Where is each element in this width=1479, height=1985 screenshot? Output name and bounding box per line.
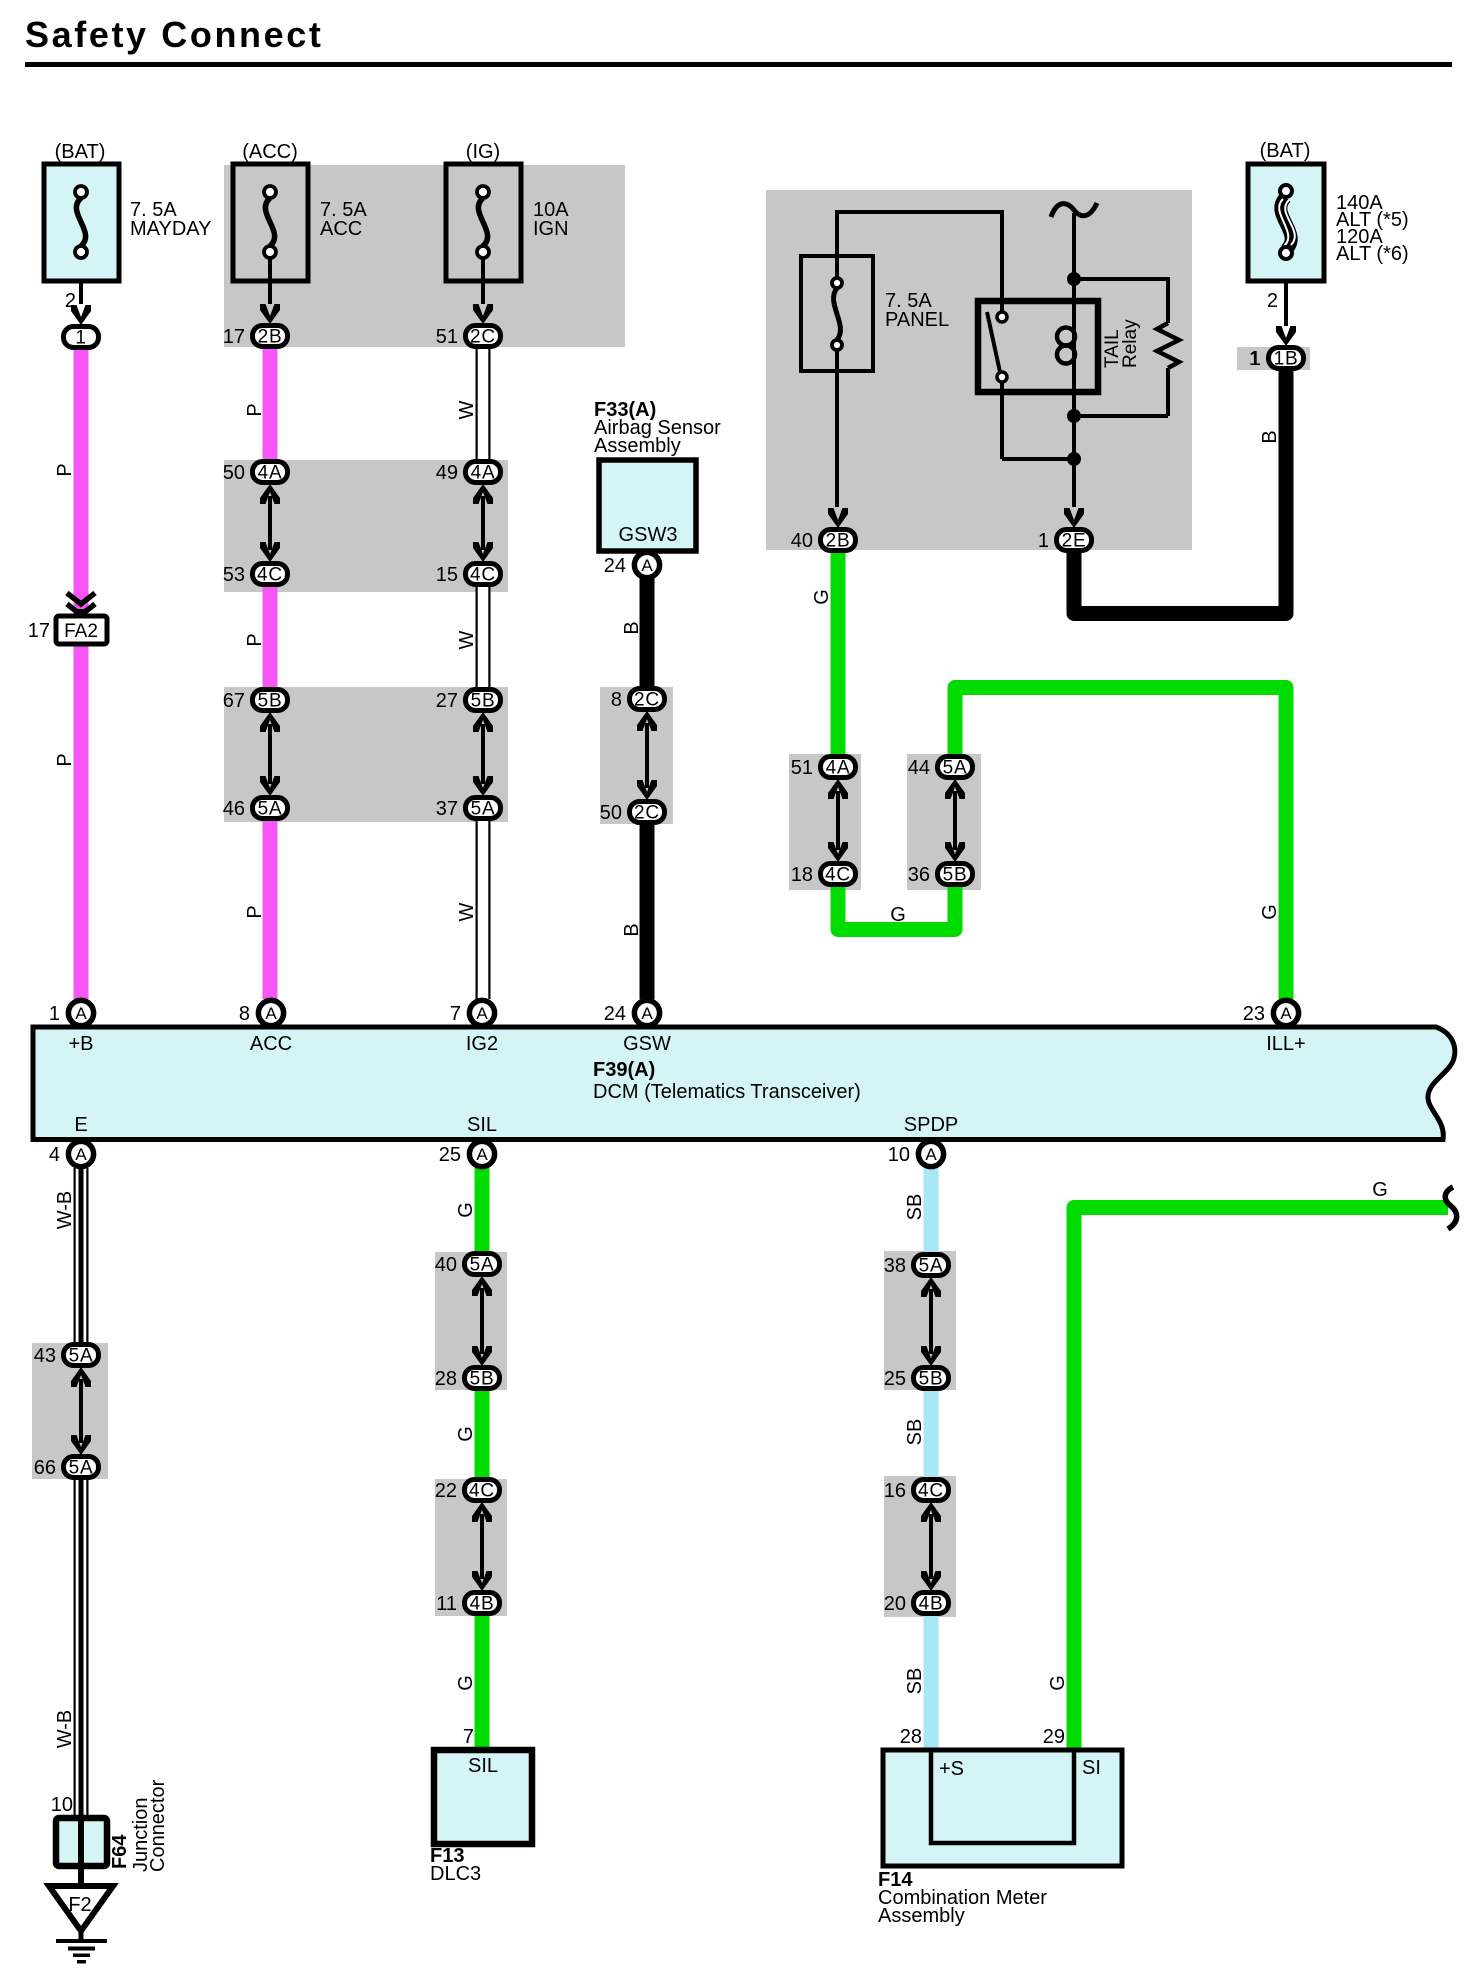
svg-text:ILL+: ILL+ — [1266, 1033, 1305, 1055]
svg-text:27: 27 — [436, 690, 458, 712]
svg-text:5A: 5A — [69, 1346, 94, 1367]
svg-text:DCM (Telematics Transceiver): DCM (Telematics Transceiver) — [593, 1081, 861, 1103]
svg-text:40: 40 — [435, 1254, 457, 1276]
svg-text:1: 1 — [75, 328, 86, 349]
svg-text:GSW3: GSW3 — [619, 524, 678, 546]
svg-text:A: A — [75, 1145, 87, 1164]
svg-text:50: 50 — [600, 802, 622, 824]
svg-text:4: 4 — [49, 1144, 60, 1166]
svg-text:SB: SB — [904, 1668, 926, 1695]
svg-text:11: 11 — [436, 1593, 457, 1615]
svg-text:MAYDAY: MAYDAY — [130, 218, 212, 240]
svg-text:25: 25 — [439, 1144, 461, 1166]
svg-text:2C: 2C — [634, 803, 660, 824]
svg-text:28: 28 — [435, 1368, 457, 1390]
svg-text:P: P — [244, 633, 266, 646]
svg-text:50: 50 — [223, 462, 245, 484]
svg-text:G: G — [1047, 1675, 1069, 1691]
svg-text:IGN: IGN — [533, 218, 569, 240]
svg-text:4A: 4A — [826, 758, 851, 779]
svg-text:F39(A): F39(A) — [593, 1059, 655, 1081]
svg-text:SI: SI — [1082, 1757, 1101, 1779]
svg-text:G: G — [455, 1675, 477, 1691]
svg-text:+B: +B — [68, 1033, 93, 1055]
svg-text:29: 29 — [1043, 1726, 1065, 1748]
svg-text:W-B: W-B — [54, 1191, 76, 1230]
svg-text:A: A — [476, 1004, 488, 1023]
svg-text:38: 38 — [884, 1255, 906, 1277]
svg-text:P: P — [244, 905, 266, 918]
svg-text:A: A — [1280, 1004, 1292, 1023]
svg-text:5B: 5B — [943, 865, 968, 886]
svg-text:2C: 2C — [634, 690, 660, 711]
svg-text:23: 23 — [1243, 1003, 1265, 1025]
svg-text:G: G — [1259, 904, 1281, 920]
svg-text:1: 1 — [49, 1003, 60, 1025]
svg-text:IG2: IG2 — [466, 1033, 498, 1055]
svg-text:4B: 4B — [470, 1594, 495, 1615]
svg-text:5A: 5A — [470, 1255, 495, 1276]
svg-text:A: A — [641, 556, 653, 575]
svg-text:4A: 4A — [471, 463, 496, 484]
svg-text:2E: 2E — [1062, 531, 1087, 552]
svg-text:Relay: Relay — [1120, 319, 1141, 368]
svg-text:5A: 5A — [471, 799, 496, 820]
svg-text:1B: 1B — [1274, 349, 1299, 370]
svg-text:ALT (*6): ALT (*6) — [1336, 243, 1409, 265]
svg-text:GSW: GSW — [623, 1033, 671, 1055]
svg-text:SB: SB — [904, 1194, 926, 1221]
svg-text:17: 17 — [223, 326, 245, 348]
svg-text:37: 37 — [436, 798, 458, 820]
svg-text:W: W — [456, 902, 478, 921]
svg-text:4A: 4A — [258, 463, 283, 484]
svg-text:DLC3: DLC3 — [430, 1863, 481, 1885]
svg-text:5A: 5A — [919, 1256, 944, 1277]
svg-text:Safety Connect: Safety Connect — [25, 14, 323, 55]
svg-text:22: 22 — [435, 1480, 457, 1502]
svg-text:SIL: SIL — [468, 1755, 498, 1777]
svg-text:SPDP: SPDP — [904, 1114, 958, 1136]
svg-text:F64: F64 — [109, 1834, 131, 1869]
svg-text:17: 17 — [28, 620, 50, 642]
svg-text:Connector: Connector — [147, 1779, 169, 1872]
svg-text:5B: 5B — [258, 691, 283, 712]
svg-text:4C: 4C — [825, 865, 851, 886]
svg-text:2: 2 — [65, 290, 76, 312]
svg-text:2C: 2C — [470, 327, 496, 348]
svg-text:28: 28 — [900, 1726, 922, 1748]
svg-text:24: 24 — [604, 1003, 626, 1025]
svg-text:40: 40 — [791, 530, 813, 552]
svg-text:A: A — [265, 1004, 277, 1023]
svg-text:5A: 5A — [258, 799, 283, 820]
svg-text:16: 16 — [884, 1480, 906, 1502]
svg-text:4B: 4B — [919, 1594, 944, 1615]
svg-text:F2: F2 — [68, 1894, 91, 1916]
svg-text:(IG): (IG) — [466, 141, 500, 163]
svg-text:49: 49 — [436, 462, 458, 484]
svg-text:Assembly: Assembly — [878, 1905, 965, 1927]
svg-text:5B: 5B — [470, 1369, 495, 1390]
svg-text:25: 25 — [884, 1368, 906, 1390]
svg-text:A: A — [476, 1145, 488, 1164]
svg-text:(ACC): (ACC) — [242, 141, 298, 163]
svg-text:1: 1 — [1038, 530, 1049, 552]
svg-text:44: 44 — [908, 757, 930, 779]
svg-text:P: P — [54, 753, 76, 766]
svg-text:W: W — [456, 630, 478, 649]
svg-text:A: A — [925, 1145, 937, 1164]
svg-text:5A: 5A — [943, 758, 968, 779]
svg-text:B: B — [621, 621, 643, 634]
svg-text:7: 7 — [450, 1003, 461, 1025]
svg-text:4C: 4C — [469, 1481, 495, 1502]
svg-text:46: 46 — [223, 798, 245, 820]
svg-text:24: 24 — [604, 555, 626, 577]
svg-text:A: A — [641, 1004, 653, 1023]
svg-text:2B: 2B — [826, 531, 851, 552]
svg-text:Assembly: Assembly — [594, 435, 681, 457]
svg-text:PANEL: PANEL — [885, 309, 949, 331]
svg-text:P: P — [244, 403, 266, 416]
svg-text:7: 7 — [463, 1726, 474, 1748]
svg-text:E: E — [74, 1114, 87, 1136]
svg-text:5B: 5B — [919, 1369, 944, 1390]
svg-text:ACC: ACC — [320, 218, 362, 240]
svg-text:(BAT): (BAT) — [1260, 140, 1311, 162]
svg-text:15: 15 — [436, 564, 458, 586]
svg-text:20: 20 — [884, 1593, 906, 1615]
svg-text:66: 66 — [34, 1457, 56, 1479]
svg-text:5A: 5A — [69, 1458, 94, 1479]
svg-text:ACC: ACC — [250, 1033, 292, 1055]
svg-text:B: B — [1259, 430, 1281, 443]
svg-text:W: W — [456, 400, 478, 419]
svg-text:36: 36 — [908, 864, 930, 886]
svg-text:A: A — [75, 1004, 87, 1023]
svg-text:2B: 2B — [258, 327, 283, 348]
svg-text:51: 51 — [436, 326, 458, 348]
svg-text:P: P — [54, 463, 76, 476]
svg-text:1: 1 — [1249, 348, 1260, 370]
svg-text:18: 18 — [791, 864, 813, 886]
svg-text:FA2: FA2 — [64, 621, 98, 642]
svg-text:4C: 4C — [470, 565, 496, 586]
svg-text:43: 43 — [34, 1345, 56, 1367]
svg-text:8: 8 — [611, 689, 622, 711]
svg-text:5B: 5B — [471, 691, 496, 712]
svg-text:4C: 4C — [918, 1481, 944, 1502]
svg-text:2: 2 — [1267, 290, 1278, 312]
svg-text:10: 10 — [888, 1144, 910, 1166]
svg-text:G: G — [455, 1426, 477, 1442]
svg-text:+S: +S — [939, 1758, 964, 1780]
svg-text:4C: 4C — [257, 565, 283, 586]
svg-text:51: 51 — [791, 757, 813, 779]
svg-text:SB: SB — [904, 1419, 926, 1446]
svg-text:B: B — [621, 923, 643, 936]
svg-text:53: 53 — [223, 564, 245, 586]
svg-text:G: G — [890, 904, 906, 926]
svg-text:8: 8 — [239, 1003, 250, 1025]
svg-text:10: 10 — [51, 1794, 73, 1816]
svg-text:G: G — [1372, 1179, 1388, 1201]
svg-text:67: 67 — [223, 690, 245, 712]
svg-text:G: G — [455, 1202, 477, 1218]
svg-text:G: G — [811, 589, 833, 605]
svg-text:(BAT): (BAT) — [55, 141, 106, 163]
svg-text:SIL: SIL — [467, 1114, 497, 1136]
svg-text:W-B: W-B — [54, 1710, 76, 1749]
